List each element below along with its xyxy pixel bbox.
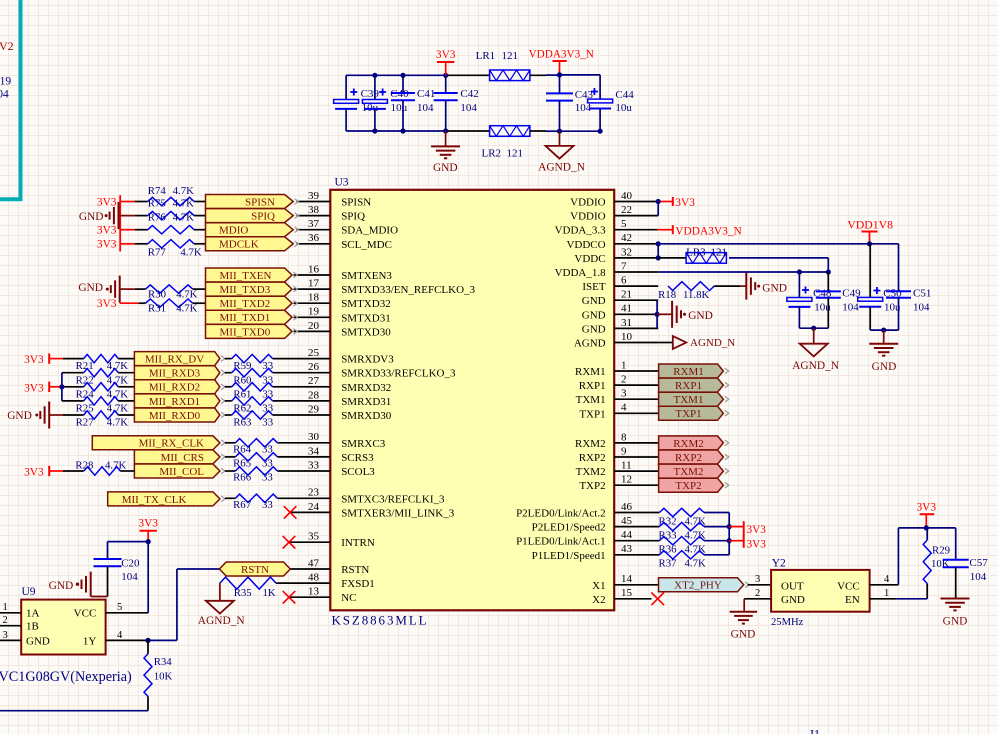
svg-text:ISET: ISET [582, 281, 606, 293]
svg-text:35: 35 [308, 531, 320, 543]
svg-text:28: 28 [308, 389, 320, 401]
port MII_TXD3 [206, 282, 298, 296]
svg-text:3: 3 [755, 574, 760, 585]
ground GND (C57) [941, 599, 970, 628]
svg-text:R61: R61 [233, 388, 251, 400]
svg-text:VDDA3V3_N: VDDA3V3_N [675, 225, 741, 237]
junction dots LED bus [727, 524, 732, 543]
power ground AGND_N (top bank) [538, 131, 585, 174]
wire VDDA rail top right [560, 74, 601, 76]
resistor R25 [76, 397, 135, 415]
junction dot U9 output [145, 638, 150, 643]
svg-text:2: 2 [621, 374, 627, 386]
svg-text:VDD1V8: VDD1V8 [847, 218, 893, 232]
svg-text:R28: R28 [75, 459, 93, 471]
junction dots VDDA bank [557, 72, 603, 133]
svg-text:5: 5 [117, 602, 122, 613]
svg-text:4.7K: 4.7K [105, 459, 126, 471]
svg-text:VDDA_1.8: VDDA_1.8 [555, 267, 607, 279]
svg-text:VCC: VCC [74, 608, 97, 620]
resistor R63 [225, 411, 273, 429]
power port 3V3 (Y2) [916, 502, 936, 528]
resistor R24 [76, 383, 135, 401]
port SPISN [206, 195, 299, 209]
svg-text:R59: R59 [233, 360, 251, 372]
power port 3V3 (VDDIO) [658, 197, 695, 209]
junction dot pin 42 [656, 241, 661, 246]
port TXP2 [659, 478, 729, 492]
wire LR1 left pin [446, 74, 490, 76]
port SPIQ [206, 209, 299, 223]
svg-text:10: 10 [621, 331, 633, 343]
svg-text:GND: GND [762, 283, 787, 295]
svg-text:R77: R77 [148, 247, 167, 259]
svg-text:17: 17 [308, 278, 320, 290]
svg-text:TXM2: TXM2 [674, 466, 704, 478]
svg-text:104: 104 [460, 102, 477, 114]
svg-text:R22: R22 [76, 374, 94, 386]
U3 pin 24 stub [290, 511, 330, 513]
svg-text:38: 38 [308, 204, 320, 216]
svg-text:GND: GND [26, 635, 50, 647]
capacitor C39 [334, 75, 380, 131]
svg-text:MII_COL: MII_COL [159, 466, 204, 478]
svg-text:AGND_N: AGND_N [792, 360, 839, 372]
svg-text:3V3: 3V3 [747, 538, 767, 550]
svg-text:MII_RXD0: MII_RXD0 [149, 410, 201, 422]
svg-text:Y2: Y2 [772, 557, 786, 569]
resistor R60 [225, 369, 273, 387]
ground GND (pin 41) [657, 301, 713, 328]
svg-text:4.7K: 4.7K [176, 288, 197, 300]
capacitor C43 [546, 75, 594, 131]
svg-text:SMRXD30: SMRXD30 [341, 410, 392, 422]
svg-text:1: 1 [621, 359, 627, 371]
U3 left pins group SMRXC [277, 443, 330, 471]
svg-text:4.7K: 4.7K [173, 198, 194, 210]
svg-text:GND: GND [688, 310, 713, 322]
capacitor C51 [886, 287, 931, 330]
svg-text:37: 37 [308, 218, 320, 230]
svg-text:104: 104 [970, 571, 987, 583]
svg-text:MII_RXD3: MII_RXD3 [149, 368, 201, 380]
svg-text:U9: U9 [22, 586, 36, 598]
power port VDDA3V3_N (top) [529, 48, 594, 75]
svg-text:C51: C51 [913, 287, 931, 299]
port MII_RX_DV [134, 352, 225, 366]
wire LED resistor bus vertical [728, 513, 730, 555]
resistor R66 [225, 467, 278, 484]
svg-text:GND: GND [433, 162, 458, 174]
ground GND (R30) [78, 276, 119, 303]
no-connect X pin 13 [283, 591, 296, 604]
svg-text:11.8K: 11.8K [683, 289, 709, 301]
svg-text:7: 7 [621, 260, 627, 272]
svg-text:GND: GND [78, 282, 103, 294]
U3 pin 15 stub [614, 598, 651, 600]
svg-text:R67: R67 [233, 499, 252, 511]
svg-text:GND: GND [872, 361, 897, 373]
svg-text:121: 121 [502, 50, 519, 62]
svg-text:AGND: AGND [574, 338, 606, 350]
resistor R18 [658, 282, 740, 301]
svg-text:SPISN: SPISN [245, 196, 275, 208]
svg-text:4.7K: 4.7K [180, 247, 201, 259]
svg-text:27: 27 [308, 375, 320, 387]
svg-text:J1: J1 [809, 728, 820, 734]
svg-text:R76: R76 [148, 212, 167, 224]
capacitor C40 [362, 75, 409, 131]
svg-text:MII_TX_CLK: MII_TX_CLK [122, 494, 187, 506]
svg-text:C41: C41 [417, 88, 435, 100]
port MII_TXEN [206, 268, 298, 282]
wire LR2 right to AGND node [530, 130, 546, 132]
svg-text:104: 104 [417, 102, 434, 114]
resistor R31 [146, 299, 198, 314]
svg-text:3V3: 3V3 [97, 239, 117, 251]
Y2 pin numbers [755, 574, 890, 599]
U3 pin 23 wire [277, 497, 330, 499]
junction dot GND rail C50 [881, 328, 886, 333]
power port 3V3 (LED upper) [729, 524, 766, 536]
svg-text:INTRN: INTRN [341, 537, 375, 549]
svg-text:R64: R64 [233, 443, 252, 455]
ground GND (top bank) [431, 131, 460, 174]
svg-text:GND: GND [781, 594, 805, 606]
ground GND (R27) [7, 402, 83, 429]
port MII_TX_CLK [108, 492, 225, 506]
svg-text:GND: GND [49, 580, 74, 592]
power port 3V3 (U9) [138, 518, 158, 542]
port MII_TXD1 [206, 310, 298, 324]
svg-text:SPIQ: SPIQ [341, 211, 365, 223]
svg-text:FXSD1: FXSD1 [341, 578, 375, 590]
svg-text:11: 11 [621, 460, 632, 472]
ground GND (C20) [49, 572, 108, 597]
svg-text:3V3: 3V3 [138, 518, 158, 530]
net label 3V3 (R24) [24, 382, 62, 395]
port RXP1 [659, 378, 729, 392]
svg-text:P1LED0/Link/Act.1: P1LED0/Link/Act.1 [516, 536, 606, 548]
svg-text:KSZ8863MLL: KSZ8863MLL [332, 612, 429, 627]
svg-text:9: 9 [621, 445, 627, 457]
svg-text:R31: R31 [148, 302, 166, 314]
resistor R64 [225, 439, 278, 456]
svg-text:33: 33 [262, 374, 273, 386]
wire C48 C49 bottom rail [799, 327, 828, 329]
port MII_RXD0 [134, 408, 225, 422]
resistor R34 [144, 640, 172, 710]
svg-text:4.7K: 4.7K [107, 374, 128, 386]
svg-text:36: 36 [308, 232, 320, 244]
svg-text:33: 33 [262, 360, 273, 372]
svg-text:19: 19 [308, 306, 320, 318]
U3 right pins group port1 [614, 371, 658, 413]
junction dots top rail [372, 73, 448, 78]
svg-text:33: 33 [262, 443, 273, 455]
svg-text:MII_TXD1: MII_TXD1 [220, 312, 271, 324]
wire LR1 right to VDDA node [530, 74, 546, 76]
capacitor C57 [943, 528, 989, 599]
wire stubs SPI group [119, 202, 148, 244]
resistor R61 [225, 383, 273, 401]
svg-text:R65: R65 [233, 458, 251, 470]
junction dots bottom rail [372, 128, 448, 133]
svg-text:R18: R18 [658, 289, 676, 301]
U3 right pins group power [614, 202, 658, 343]
svg-text:MII_TXD3: MII_TXD3 [220, 284, 271, 296]
svg-text:SMRXDV3: SMRXDV3 [341, 354, 394, 366]
svg-text:4.7K: 4.7K [176, 302, 197, 314]
svg-text:25: 25 [308, 347, 320, 359]
svg-text:30: 30 [308, 431, 320, 443]
U3 right pins group port2 [614, 443, 658, 485]
port XT2_PHY [659, 578, 750, 592]
svg-text:R29: R29 [932, 544, 950, 556]
svg-text:MII_TXEN: MII_TXEN [220, 270, 272, 282]
svg-text:12: 12 [621, 474, 632, 486]
junction dot pin 32 [656, 255, 661, 260]
svg-text:21: 21 [621, 289, 632, 301]
port MII_RXD1 [134, 394, 225, 408]
resistor R76 [148, 212, 194, 234]
svg-text:C44: C44 [615, 89, 634, 101]
port RXM2 [659, 436, 729, 450]
svg-text:33: 33 [262, 403, 273, 415]
svg-text:P2LED0/Link/Act.2: P2LED0/Link/Act.2 [516, 508, 606, 520]
wire vertical 3V3 to R22/R24/R25 [62, 373, 84, 401]
svg-text:SMRXD32: SMRXD32 [341, 382, 391, 394]
power port VDDA3V3_N (pin 5) [658, 225, 742, 237]
svg-text:8: 8 [621, 431, 627, 443]
svg-text:GND: GND [582, 309, 606, 321]
svg-text:45: 45 [621, 515, 633, 527]
port MII_COL [134, 464, 225, 478]
svg-text:LR2: LR2 [482, 147, 502, 159]
svg-text:104: 104 [121, 571, 138, 583]
capacitor C20 [94, 542, 141, 597]
svg-text:SMRXC3: SMRXC3 [341, 438, 386, 450]
svg-text:R37: R37 [659, 558, 678, 570]
svg-text:C42: C42 [460, 88, 478, 100]
svg-text:10u: 10u [391, 102, 408, 114]
svg-text:42: 42 [621, 232, 632, 244]
svg-text:VDDIO: VDDIO [570, 197, 605, 209]
svg-text:46: 46 [621, 501, 633, 513]
svg-text:SMTXD31: SMTXD31 [341, 312, 391, 324]
svg-text:R75: R75 [148, 198, 166, 210]
svg-text:1Y: 1Y [83, 635, 97, 647]
resistor R62 [225, 397, 273, 415]
svg-text:SMTXEN3: SMTXEN3 [341, 270, 392, 282]
svg-text:RXP1: RXP1 [675, 380, 702, 392]
capacitor C48 [787, 272, 832, 328]
svg-text:R34: R34 [154, 656, 173, 668]
svg-text:SMTXD33/EN_REFCLKO_3: SMTXD33/EN_REFCLKO_3 [341, 284, 475, 296]
wire 3V3 node to VCC [108, 542, 149, 613]
svg-text:GND: GND [582, 295, 606, 307]
svg-text:4.7K: 4.7K [107, 417, 128, 429]
svg-text:SPISN: SPISN [341, 197, 371, 209]
svg-text:33: 33 [262, 458, 273, 470]
no-connect X pin 35 [283, 536, 296, 549]
svg-text:3: 3 [3, 630, 8, 641]
resistor R77 [148, 240, 202, 259]
svg-text:MII_RX_CLK: MII_RX_CLK [139, 438, 204, 450]
svg-text:33: 33 [262, 499, 273, 511]
svg-text:3V3: 3V3 [97, 298, 117, 310]
svg-text:MII_TXD0: MII_TXD0 [220, 326, 271, 338]
svg-text:P2LED1/Speed2: P2LED1/Speed2 [532, 522, 606, 534]
svg-text:3V3: 3V3 [436, 49, 456, 61]
resistor R36 [659, 537, 730, 556]
svg-text:RXM2: RXM2 [575, 438, 606, 450]
svg-text:TXP2: TXP2 [675, 480, 701, 492]
U9 right pins [106, 602, 149, 641]
svg-text:OUT: OUT [781, 581, 804, 593]
svg-text:33: 33 [262, 472, 273, 484]
svg-text:SDA_MDIO: SDA_MDIO [341, 225, 398, 237]
wire RSTN to U9 output [148, 569, 219, 640]
svg-text:121: 121 [711, 246, 728, 258]
svg-text:RXM2: RXM2 [673, 438, 704, 450]
svg-text:R35: R35 [234, 587, 252, 599]
svg-text:121: 121 [507, 147, 524, 159]
wires resistors to MII_TX ports [193, 289, 206, 303]
resistor R65 [225, 453, 278, 470]
power ground AGND_N (R35) [198, 601, 245, 627]
svg-text:MDIO: MDIO [219, 225, 248, 237]
power port 3V3 (LED lower) [729, 538, 766, 550]
svg-text:GND: GND [582, 323, 606, 335]
svg-text:15: 15 [621, 587, 633, 599]
junction dot pin 41 [655, 312, 660, 317]
svg-text:C19: C19 [0, 76, 11, 88]
U9 pin names [26, 608, 96, 648]
port MII_RX_CLK [92, 436, 225, 450]
U3 left pins group SPI [297, 202, 331, 244]
svg-text:RXP2: RXP2 [675, 452, 702, 464]
ground GND (R75) [79, 202, 119, 229]
svg-text:3V3: 3V3 [916, 502, 936, 514]
svg-text:6: 6 [621, 275, 627, 287]
wire VDDIO pins 40-22 [657, 202, 659, 216]
svg-text:39: 39 [308, 190, 320, 202]
capacitor C42 [434, 75, 479, 131]
port TXM1 [659, 392, 729, 406]
resistor R74 [148, 185, 194, 206]
power ground AGND_N (C48) [792, 328, 839, 372]
svg-text:4.7K: 4.7K [107, 360, 128, 372]
svg-text:SMRXD33/REFCLKO_3: SMRXD33/REFCLKO_3 [341, 368, 456, 380]
svg-text:SMRXD31: SMRXD31 [341, 396, 391, 408]
svg-text:4.7K: 4.7K [107, 388, 128, 400]
svg-text:X1: X1 [592, 580, 605, 592]
svg-text:3: 3 [621, 388, 627, 400]
svg-text:SMTXD32: SMTXD32 [341, 298, 391, 310]
wire VCC riser [898, 528, 955, 585]
svg-text:AGND_N: AGND_N [198, 615, 245, 627]
svg-text:RSTN: RSTN [341, 564, 369, 576]
U9 left pins [0, 602, 21, 641]
svg-text:44: 44 [621, 529, 633, 541]
svg-text:GND: GND [7, 410, 32, 422]
wire stubs MII_TX group [120, 289, 146, 303]
svg-text:SMTXC3/REFCLKI_3: SMTXC3/REFCLKI_3 [341, 493, 445, 505]
resistor R32 [659, 508, 730, 527]
svg-text:31: 31 [621, 317, 632, 329]
junction dot VDD1V8 [867, 241, 872, 246]
svg-text:VDDA3V3_N: VDDA3V3_N [529, 48, 594, 60]
svg-text:R25: R25 [76, 403, 94, 415]
svg-text:AGND_N: AGND_N [690, 337, 735, 349]
resistor R29 [923, 528, 950, 599]
svg-text:VDDCO: VDDCO [566, 239, 605, 251]
svg-text:AGND_N: AGND_N [538, 162, 585, 174]
wire VDD1V8 down to C50 C51 [870, 244, 898, 298]
ground GND (Y2) [730, 599, 758, 641]
port MII_RXD2 [134, 380, 225, 394]
svg-text:18: 18 [308, 292, 320, 304]
svg-text:X2: X2 [592, 594, 605, 606]
ferrite bead LR3 [658, 246, 828, 272]
svg-text:SMTXER3/MII_LINK_3: SMTXER3/MII_LINK_3 [341, 507, 455, 519]
svg-text:29: 29 [308, 403, 320, 415]
svg-text:RXP1: RXP1 [579, 380, 606, 392]
port MII_TXD2 [206, 296, 298, 310]
port MDIO [206, 223, 299, 237]
U3 pin 35 stub [289, 541, 330, 543]
U3 left pin numbers [308, 190, 320, 598]
port TXM2 [659, 464, 729, 478]
port MDCLK [206, 237, 299, 251]
svg-text:4.7K: 4.7K [173, 212, 194, 224]
svg-text:3V3: 3V3 [97, 196, 117, 208]
svg-text:10K: 10K [154, 671, 173, 683]
U3 right pin numbers [621, 190, 633, 599]
resistor R59 [225, 354, 273, 372]
svg-text:2: 2 [755, 588, 760, 599]
ferrite bead LR1 [476, 50, 530, 81]
svg-text:104: 104 [913, 301, 930, 313]
svg-text:4.7K: 4.7K [107, 403, 128, 415]
svg-text:104: 104 [0, 89, 9, 101]
capacitor C50 [858, 287, 902, 330]
power bar 3V3 LED [743, 521, 745, 548]
port MII_TXD0 [206, 324, 298, 338]
svg-text:1B: 1B [26, 621, 39, 633]
svg-text:1A: 1A [26, 608, 40, 620]
port TXP1 [659, 406, 729, 420]
svg-text:2: 2 [3, 615, 8, 626]
svg-text:R63: R63 [233, 417, 251, 429]
svg-text:GND: GND [731, 629, 756, 641]
svg-text:SPIQ: SPIQ [251, 211, 275, 223]
svg-text:C39: C39 [361, 88, 380, 100]
svg-text:34: 34 [308, 445, 320, 457]
resistor R75 [148, 198, 194, 220]
svg-text:VDDA_3.3: VDDA_3.3 [555, 225, 607, 237]
svg-text:C20: C20 [121, 558, 140, 570]
U3 pin 48 wire [276, 582, 330, 584]
port RXP2 [659, 450, 729, 464]
svg-text:25MHz: 25MHz [771, 617, 804, 628]
port MII_RXD3 [134, 366, 225, 380]
ferrite bead LR2 [482, 126, 530, 160]
wires resistors to SPI ports [194, 202, 205, 244]
junction dot pin 40 [656, 199, 661, 204]
power port VDD1V8 [847, 218, 893, 244]
